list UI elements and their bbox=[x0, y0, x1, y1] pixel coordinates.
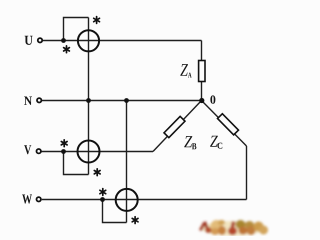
junction at U line / voltage loop bbox=[61, 38, 66, 43]
label Z_C bbox=[210, 136, 222, 149]
junction at W line / voltage loop bbox=[100, 197, 105, 202]
node 0 label bbox=[210, 95, 215, 103]
label N bbox=[24, 97, 32, 105]
watermark (blurred colored logo bottom right) bbox=[199, 220, 268, 236]
wire U phase line bbox=[42, 40, 201, 42]
wire N line bbox=[42, 100, 202, 102]
impedance Z_A bbox=[199, 61, 205, 82]
wire Z_A drop from U line bbox=[201, 41, 203, 101]
wire diagonal node 0 to right vertical (Z_C branch) bbox=[202, 101, 247, 147]
wattmeter W2 (V phase) bbox=[78, 141, 100, 163]
polarity mark asterisk W1 voltage (top right of W1) bbox=[94, 17, 100, 24]
label Z_B bbox=[184, 136, 196, 149]
polarity mark asterisk W2 voltage (bottom right of W2 loop) bbox=[94, 169, 100, 176]
wire voltage-coil vertical of W3 (x=127) bbox=[126, 101, 128, 223]
wire right vertical of Z_C branch bbox=[246, 146, 248, 200]
label W bbox=[22, 195, 32, 204]
wire V phase line bbox=[41, 151, 153, 153]
junction at V line / voltage loop bbox=[61, 149, 66, 154]
wire voltage-coil vertical of W1 and W2 (x=88.5) bbox=[88, 18, 90, 175]
junction N line / W3 voltage coil bbox=[124, 98, 129, 103]
terminal V bbox=[37, 149, 41, 153]
label Z_A bbox=[180, 64, 191, 77]
polarity mark asterisk W3 voltage (bottom right of W3 loop) bbox=[132, 217, 138, 224]
polarity mark asterisk W1 current (below U junction) bbox=[64, 46, 70, 53]
terminal W bbox=[37, 197, 41, 201]
wattmeter W3 (W phase) bbox=[116, 189, 138, 211]
wire W1 voltage loop bbox=[64, 18, 89, 41]
terminal U bbox=[38, 38, 42, 42]
wire W phase line bbox=[42, 199, 247, 201]
impedance Z_C bbox=[218, 114, 239, 135]
terminal N bbox=[37, 98, 41, 102]
polarity mark asterisk W2 current (above V junction) bbox=[61, 140, 67, 147]
polarity mark asterisk W3 current (above W junction) bbox=[100, 189, 106, 196]
wire diagonal node 0 to V line (Z_B branch) bbox=[153, 101, 202, 152]
label V bbox=[24, 145, 31, 154]
wattmeter W1 (U phase) bbox=[78, 30, 99, 51]
impedance Z_B bbox=[164, 116, 185, 137]
junction N line / W1-W2 voltage coils bbox=[86, 98, 91, 103]
node 0 junction bbox=[199, 98, 204, 103]
wire W3 voltage loop bbox=[103, 200, 127, 223]
wire W2 voltage loop bbox=[64, 152, 89, 175]
label U bbox=[25, 36, 33, 45]
